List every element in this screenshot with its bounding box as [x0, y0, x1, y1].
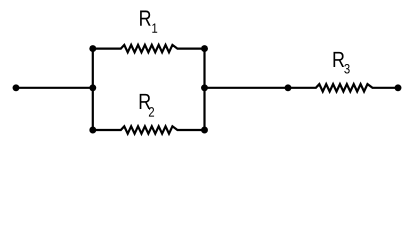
node: right output terminal	[395, 84, 402, 91]
node: left input terminal	[13, 84, 20, 91]
node: left junction	[89, 84, 96, 91]
label R1 subscript 1	[152, 24, 157, 33]
label R3 letter R	[334, 52, 345, 67]
wire: left lead from input terminal to left junction	[16, 87, 93, 89]
resistor R3 (middle branch with wires to output terminal)	[205, 84, 399, 91]
wire: right vertical rail of parallel section	[203, 49, 205, 130]
node: bottom-left corner	[89, 127, 96, 134]
resistor R2 (bottom branch with connecting wires)	[93, 126, 205, 133]
label R1 letter R	[140, 11, 151, 26]
node: top-right corner	[201, 45, 208, 52]
node: top-left corner	[89, 45, 96, 52]
node: middle node between parallel section and R3	[285, 84, 292, 91]
resistor R1 (top branch with connecting wires)	[93, 45, 205, 52]
label R3 subscript 3	[344, 64, 349, 74]
label R2 subscript 2	[149, 107, 154, 116]
node: bottom-right corner	[201, 127, 208, 134]
node: right junction	[201, 84, 208, 91]
label R2 letter R	[140, 94, 151, 109]
wire: left vertical rail of parallel section	[92, 49, 94, 130]
